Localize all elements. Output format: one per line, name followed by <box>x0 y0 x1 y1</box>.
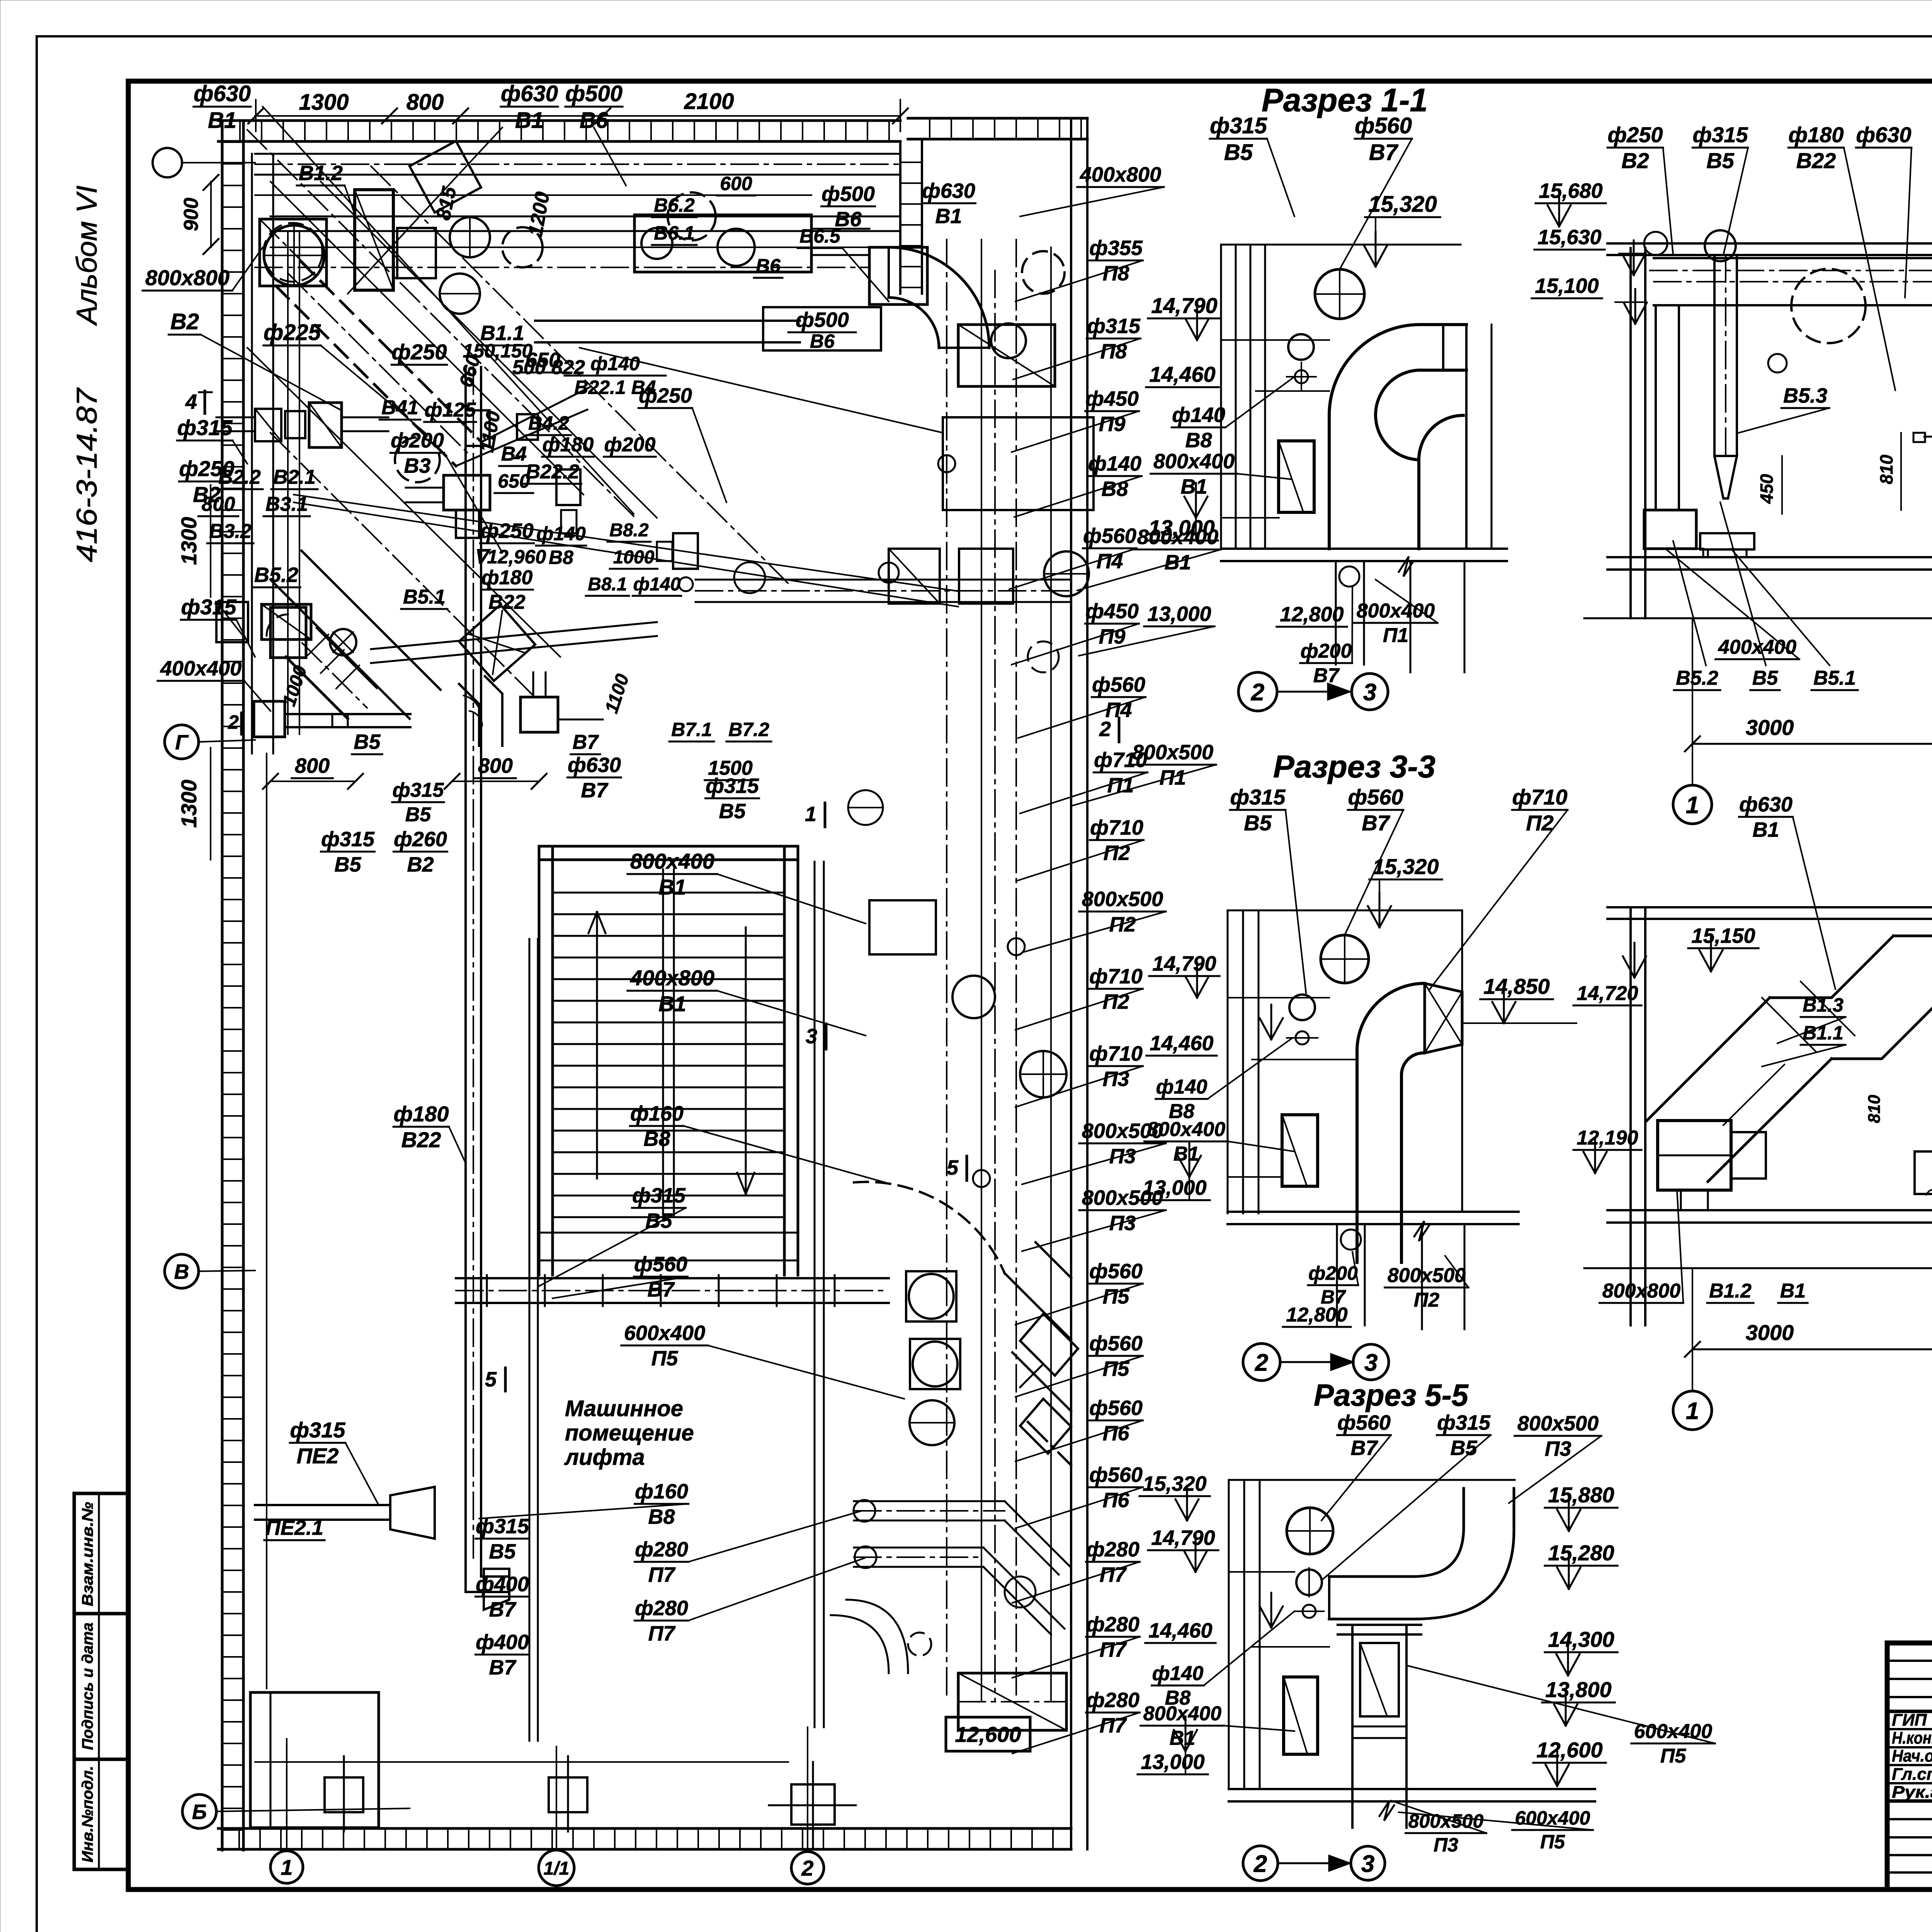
svg-text:ф315: ф315 <box>393 779 444 801</box>
B1 fan3 <box>502 227 543 267</box>
svg-text:ф160: ф160 <box>630 1102 684 1125</box>
svg-text:1: 1 <box>1686 792 1699 818</box>
svg-text:ф450: ф450 <box>1085 600 1139 623</box>
svg-text:ф560: ф560 <box>1089 1463 1143 1486</box>
svg-text:800х500: 800х500 <box>1082 888 1163 911</box>
svg-text:В8: В8 <box>1185 429 1212 452</box>
svg-text:П2: П2 <box>1414 1289 1439 1311</box>
svg-text:П3: П3 <box>1103 1067 1129 1090</box>
svg-text:1300: 1300 <box>177 780 201 828</box>
right rect eq1 <box>869 247 927 304</box>
axis circle top <box>153 148 182 177</box>
margin stamp boxes <box>74 1493 128 1869</box>
svg-text:2: 2 <box>228 711 239 733</box>
svg-text:1: 1 <box>1686 1398 1699 1424</box>
svg-text:В2: В2 <box>170 309 199 334</box>
plan open rect right <box>943 417 1094 510</box>
svg-text:Г: Г <box>175 731 189 754</box>
plan top dim line <box>255 115 900 117</box>
svg-text:ф560: ф560 <box>1337 1411 1391 1434</box>
svg-text:ф315: ф315 <box>290 1418 346 1442</box>
svg-text:ф140: ф140 <box>1156 1076 1207 1098</box>
svg-text:В3.1: В3.1 <box>265 493 308 515</box>
svg-text:ф250: ф250 <box>1608 122 1663 147</box>
svg-text:ф140: ф140 <box>536 523 586 544</box>
B2 pipes <box>216 417 255 418</box>
svg-text:1300: 1300 <box>177 517 201 565</box>
plan duct 800x400 low <box>958 1673 1066 1730</box>
svg-text:В5.2: В5.2 <box>1676 667 1718 689</box>
svg-text:В: В <box>174 1260 189 1283</box>
svg-text:ф630: ф630 <box>194 81 251 106</box>
svg-text:ф315: ф315 <box>1230 785 1286 809</box>
P-elbow big <box>889 247 989 348</box>
svg-text:400х800: 400х800 <box>630 966 714 990</box>
svg-text:Рук.гр.: Рук.гр. <box>1892 1782 1932 1801</box>
svg-text:В5.2: В5.2 <box>254 563 298 587</box>
svg-text:Подпись и дата: Подпись и дата <box>79 1622 96 1750</box>
B8 rect right <box>673 533 698 569</box>
svg-text:П4: П4 <box>1105 698 1132 721</box>
B5 rot square X <box>459 605 535 681</box>
svg-text:лифта: лифта <box>564 1445 645 1470</box>
plan diag leaders set <box>270 182 583 495</box>
svg-text:ф450: ф450 <box>1085 387 1139 410</box>
svg-text:В5: В5 <box>334 853 361 876</box>
pipe f280 b <box>854 1547 983 1549</box>
svg-text:800: 800 <box>478 754 513 777</box>
svg-text:800х500: 800х500 <box>1517 1412 1599 1435</box>
bottom pedestal <box>791 1784 835 1825</box>
svg-text:800х800: 800х800 <box>1602 1280 1681 1302</box>
svg-text:15,100: 15,100 <box>1535 274 1599 298</box>
svg-text:ф315: ф315 <box>1087 315 1141 338</box>
svg-text:15,150: 15,150 <box>1691 924 1755 947</box>
svg-text:ф250: ф250 <box>392 340 447 364</box>
plan extra circles mid <box>395 437 440 482</box>
svg-text:ф710: ф710 <box>1090 816 1143 839</box>
svg-text:ф315: ф315 <box>1437 1411 1491 1434</box>
svg-text:450: 450 <box>1757 474 1777 504</box>
svg-text:ф125: ф125 <box>425 399 476 421</box>
svg-text:В7: В7 <box>489 1656 517 1679</box>
axis Г <box>165 725 199 759</box>
B5 diag duct <box>286 657 348 719</box>
svg-text:П9: П9 <box>1099 625 1126 648</box>
svg-text:14,460: 14,460 <box>1149 362 1215 386</box>
svg-text:1: 1 <box>805 803 816 826</box>
svg-text:В7.1: В7.1 <box>671 719 712 740</box>
B4 rect <box>466 410 490 446</box>
svg-text:В5.1: В5.1 <box>1813 667 1856 689</box>
svg-text:Б: Б <box>192 1800 207 1823</box>
svg-text:В1: В1 <box>1752 818 1779 841</box>
staircase <box>538 846 541 1275</box>
svg-text:600: 600 <box>720 173 752 194</box>
plan big rect B6 unit <box>634 215 811 272</box>
svg-text:12,800: 12,800 <box>1286 1304 1347 1326</box>
svg-text:В6: В6 <box>756 255 781 277</box>
svg-text:ф560: ф560 <box>1089 1332 1143 1355</box>
svg-text:ф315: ф315 <box>706 774 759 798</box>
plan top duct run <box>255 153 900 155</box>
svg-text:П8: П8 <box>1100 340 1127 363</box>
plan S pipes low <box>831 1615 889 1673</box>
svg-text:Машинное: Машинное <box>565 1396 683 1421</box>
plan bottom wall <box>218 1827 1071 1830</box>
B5 diag hatch <box>305 634 359 689</box>
svg-text:П5: П5 <box>1540 1831 1565 1853</box>
svg-text:900: 900 <box>180 198 202 231</box>
svg-text:В7: В7 <box>489 1598 517 1621</box>
svg-text:15,880: 15,880 <box>1548 1483 1614 1507</box>
svg-text:ф315: ф315 <box>321 828 375 851</box>
svg-text:В8: В8 <box>1101 477 1128 500</box>
B22 vertical duct <box>464 367 467 1558</box>
plan left duct run <box>251 154 253 753</box>
svg-text:800х800: 800х800 <box>145 265 230 290</box>
svg-text:4: 4 <box>185 390 197 413</box>
svg-text:ф315: ф315 <box>177 415 233 440</box>
svg-text:В3.2: В3.2 <box>209 520 252 543</box>
svg-text:ф140: ф140 <box>1172 403 1225 427</box>
svg-text:В5: В5 <box>645 1209 672 1232</box>
svg-text:650: 650 <box>498 470 530 492</box>
B5 grille 400x400 <box>262 604 311 639</box>
svg-text:В1: В1 <box>658 992 686 1016</box>
G axis pylon <box>254 701 285 737</box>
B2 row rects <box>255 409 281 441</box>
svg-text:В5: В5 <box>354 730 381 753</box>
svg-text:3000: 3000 <box>1746 715 1794 740</box>
svg-text:15,680: 15,680 <box>1539 179 1602 202</box>
svg-text:15,320: 15,320 <box>1372 854 1439 879</box>
trap P6 <box>1020 1314 1078 1376</box>
svg-text:1000: 1000 <box>613 547 655 568</box>
svg-text:15,320: 15,320 <box>1368 192 1437 217</box>
right circles mid <box>1044 551 1089 596</box>
mid long leader <box>294 495 958 591</box>
plan left inner line <box>266 753 267 1689</box>
svg-text:П4: П4 <box>1097 549 1123 573</box>
svg-text:ф200: ф200 <box>391 429 444 452</box>
svg-text:13,800: 13,800 <box>1545 1677 1611 1702</box>
svg-text:15,320: 15,320 <box>1143 1472 1206 1495</box>
svg-text:ф160: ф160 <box>635 1480 688 1503</box>
svg-text:ф140: ф140 <box>1088 452 1141 475</box>
axis Б <box>182 1794 216 1828</box>
B1 fan circle <box>264 225 324 286</box>
B1 unit rect <box>355 190 393 290</box>
B1 grille 800x800 <box>260 219 327 286</box>
svg-text:П1: П1 <box>1383 624 1408 646</box>
B1 connect duct <box>535 320 800 322</box>
svg-text:В5: В5 <box>1706 148 1734 173</box>
B1 rot square <box>410 141 481 213</box>
svg-text:П5: П5 <box>651 1347 679 1370</box>
svg-text:ф280: ф280 <box>1086 1538 1139 1561</box>
boxed label ф500 B6 <box>763 307 881 350</box>
svg-text:В8.1: В8.1 <box>588 574 627 595</box>
svg-text:ф630: ф630 <box>501 81 558 106</box>
svg-text:ф250: ф250 <box>639 384 692 407</box>
svg-text:В1.2: В1.2 <box>1709 1280 1752 1302</box>
svg-text:5: 5 <box>485 1368 497 1391</box>
svg-text:ф250: ф250 <box>179 456 235 481</box>
svg-text:Разрез 1-1: Разрез 1-1 <box>1262 82 1428 118</box>
svg-text:В2: В2 <box>193 482 221 507</box>
svg-text:В1: В1 <box>208 108 236 133</box>
svg-text:12,600: 12,600 <box>1536 1738 1602 1762</box>
B5 valve circle <box>330 629 356 655</box>
svg-text:ф280: ф280 <box>1086 1689 1139 1712</box>
svg-text:ф225: ф225 <box>264 320 321 345</box>
svg-text:800х400: 800х400 <box>630 849 714 873</box>
svg-text:14,460: 14,460 <box>1148 1619 1212 1642</box>
svg-text:2: 2 <box>1253 1850 1267 1877</box>
plan top wall <box>218 119 900 122</box>
svg-text:ф280: ф280 <box>635 1597 688 1620</box>
B4 body <box>444 475 490 510</box>
svg-text:В7.2: В7.2 <box>728 719 769 740</box>
svg-text:П9: П9 <box>1099 412 1126 435</box>
svg-text:помещение: помещение <box>565 1420 694 1446</box>
svg-text:В7: В7 <box>1369 140 1399 165</box>
svg-text:800х400: 800х400 <box>1357 600 1435 622</box>
svg-text:В8: В8 <box>648 1505 675 1528</box>
svg-text:14,790: 14,790 <box>1152 952 1216 975</box>
svg-text:В5: В5 <box>1752 667 1779 689</box>
svg-text:ф560: ф560 <box>1348 785 1403 809</box>
axis В <box>165 1254 199 1288</box>
svg-text:В5.1: В5.1 <box>403 586 446 608</box>
svg-text:В8.2: В8.2 <box>609 520 649 541</box>
fanbox stack <box>906 1271 956 1321</box>
svg-text:В5: В5 <box>405 803 432 826</box>
svg-text:ф200: ф200 <box>1308 1262 1358 1284</box>
svg-text:ф250: ф250 <box>480 519 534 543</box>
svg-text:2: 2 <box>801 1856 813 1880</box>
svg-text:ф560: ф560 <box>634 1253 687 1276</box>
svg-text:Альбом VI: Альбом VI <box>71 185 103 326</box>
svg-text:В22: В22 <box>401 1128 441 1152</box>
svg-text:3000: 3000 <box>1746 1320 1794 1345</box>
svg-text:Гл.спец: Гл.спец <box>1892 1765 1932 1784</box>
thin vertical pair <box>529 939 531 1741</box>
svg-text:ф560: ф560 <box>1092 673 1145 696</box>
plan left wall <box>221 121 224 1850</box>
svg-text:В8: В8 <box>643 1127 670 1150</box>
pipe f280 a <box>854 1500 1005 1502</box>
svg-text:Взам.инв.№: Взам.инв.№ <box>79 1502 96 1606</box>
svg-text:3: 3 <box>1364 1349 1378 1376</box>
svg-text:Разрез 3-3: Разрез 3-3 <box>1273 749 1435 784</box>
svg-text:П2: П2 <box>1103 990 1129 1013</box>
svg-text:ф280: ф280 <box>635 1538 688 1561</box>
svg-text:ф140: ф140 <box>1152 1662 1204 1685</box>
svg-text:В2.1: В2.1 <box>273 466 316 488</box>
plan horiz flanges <box>486 1275 488 1306</box>
svg-text:13,000: 13,000 <box>1147 602 1211 626</box>
svg-text:П8: П8 <box>1103 262 1129 285</box>
svg-text:В6: В6 <box>810 330 835 352</box>
svg-text:3: 3 <box>1363 679 1376 706</box>
top right circles <box>668 192 716 240</box>
elev box 12600 <box>946 1717 1030 1751</box>
svg-text:1300: 1300 <box>299 90 349 115</box>
B5 elbow down <box>459 676 502 746</box>
svg-text:ф280: ф280 <box>1086 1613 1139 1636</box>
axis 1/1 <box>539 1850 574 1886</box>
plan riser circles <box>938 455 955 472</box>
svg-text:ф560: ф560 <box>1355 113 1412 138</box>
svg-text:П3: П3 <box>1545 1437 1571 1460</box>
svg-text:В1: В1 <box>1173 1143 1199 1165</box>
svg-text:14,300: 14,300 <box>1548 1627 1614 1651</box>
svg-text:В1.3: В1.3 <box>1803 994 1844 1016</box>
plan horiz thin upper <box>270 247 900 248</box>
B22 rect <box>556 469 580 505</box>
B1 diag duct2 <box>481 386 591 442</box>
svg-text:ф560: ф560 <box>1089 1260 1143 1283</box>
svg-text:ф710: ф710 <box>1512 785 1568 809</box>
svg-text:В2: В2 <box>407 853 434 876</box>
title block grid <box>1887 1643 1932 1889</box>
svg-text:В6.5: В6.5 <box>799 225 841 247</box>
svg-text:14,790: 14,790 <box>1151 1526 1215 1549</box>
svg-text:ф630: ф630 <box>1739 793 1793 816</box>
svg-text:2: 2 <box>1251 679 1264 706</box>
svg-text:В1: В1 <box>1180 475 1207 498</box>
svg-text:ф315: ф315 <box>476 1515 529 1538</box>
plan right wall <box>1070 120 1072 1849</box>
B1 diag duct <box>276 286 456 466</box>
plan corridor wall <box>814 862 816 1727</box>
right eq y2500 <box>869 900 936 954</box>
plan horiz duct y3330 <box>456 1277 889 1279</box>
svg-text:ф560: ф560 <box>1089 1396 1143 1420</box>
plan band y1500 <box>696 579 1071 581</box>
axis 1 <box>270 1851 303 1883</box>
svg-text:14,720: 14,720 <box>1577 982 1638 1005</box>
riser lines right <box>946 240 947 1700</box>
svg-text:800х400: 800х400 <box>1143 1702 1222 1725</box>
B1 leader diag <box>247 130 634 516</box>
svg-text:В7: В7 <box>1313 664 1340 687</box>
svg-text:ПЕ2.1: ПЕ2.1 <box>265 1516 323 1539</box>
svg-text:В7: В7 <box>573 731 599 753</box>
svg-text:ф630: ф630 <box>922 179 975 202</box>
svg-text:800: 800 <box>406 90 444 115</box>
svg-text:810: 810 <box>1876 454 1896 484</box>
svg-text:ф315: ф315 <box>1693 122 1748 147</box>
svg-text:В1.1: В1.1 <box>1803 1022 1844 1044</box>
svg-text:В7: В7 <box>1362 811 1390 835</box>
diag ducts P5 P6 <box>1005 1273 1071 1340</box>
svg-text:В5.3: В5.3 <box>1783 384 1827 407</box>
svg-text:ф260: ф260 <box>394 828 447 851</box>
svg-text:В5: В5 <box>719 799 746 823</box>
svg-text:ф500: ф500 <box>796 308 849 332</box>
machine room box <box>250 1692 379 1828</box>
svg-text:В1: В1 <box>1780 1280 1806 1302</box>
svg-text:П2: П2 <box>1526 811 1553 835</box>
svg-text:В2: В2 <box>1621 148 1649 173</box>
svg-text:В41: В41 <box>381 396 418 419</box>
svg-text:14,790: 14,790 <box>1151 293 1217 318</box>
mid diag duct <box>270 580 410 719</box>
svg-text:П7: П7 <box>648 1563 676 1586</box>
svg-text:П3: П3 <box>1434 1834 1458 1856</box>
svg-text:12,800: 12,800 <box>1280 603 1344 626</box>
svg-text:В1: В1 <box>935 204 962 228</box>
svg-text:800: 800 <box>295 754 330 777</box>
svg-text:3: 3 <box>1361 1850 1374 1877</box>
svg-text:В6.1: В6.1 <box>654 222 695 244</box>
svg-text:ф630: ф630 <box>568 753 621 777</box>
svg-text:ф710: ф710 <box>1089 965 1143 988</box>
svg-text:14,460: 14,460 <box>1150 1032 1213 1055</box>
svg-text:12,600: 12,600 <box>955 1722 1021 1747</box>
svg-text:ф355: ф355 <box>1089 236 1143 260</box>
G axis pylon right <box>520 697 558 732</box>
svg-text:800х400: 800х400 <box>1153 450 1235 473</box>
svg-text:В7: В7 <box>581 779 609 802</box>
svg-text:ф315: ф315 <box>181 595 237 619</box>
svg-text:15,280: 15,280 <box>1548 1541 1614 1565</box>
right rect eq2 <box>889 549 940 604</box>
svg-text:ф400: ф400 <box>476 1573 529 1596</box>
svg-text:13,000: 13,000 <box>1143 1176 1206 1199</box>
svg-text:ф400: ф400 <box>476 1631 529 1654</box>
svg-text:ф200: ф200 <box>604 434 656 456</box>
svg-text:12,190: 12,190 <box>1577 1127 1638 1149</box>
svg-text:В8: В8 <box>549 547 573 568</box>
svg-text:1: 1 <box>281 1855 293 1879</box>
mid horiz pipe <box>371 622 657 649</box>
svg-text:ф560: ф560 <box>1083 524 1136 548</box>
svg-text:13,000: 13,000 <box>1148 515 1214 540</box>
svg-text:П5: П5 <box>1660 1745 1686 1767</box>
svg-text:ф710: ф710 <box>1089 1042 1143 1065</box>
svg-text:ф500: ф500 <box>565 81 622 106</box>
svg-text:2100: 2100 <box>684 89 734 114</box>
svg-text:ф140: ф140 <box>633 574 681 595</box>
svg-text:ф315: ф315 <box>1210 113 1267 138</box>
row2 rects <box>216 602 248 642</box>
svg-text:800х400: 800х400 <box>1147 1118 1226 1141</box>
svg-text:ПЕ2: ПЕ2 <box>297 1444 339 1468</box>
svg-text:ф180: ф180 <box>1789 122 1844 147</box>
svg-text:ф200: ф200 <box>1301 640 1352 662</box>
PE2 duct <box>255 1504 390 1506</box>
svg-text:Разрез 5-5: Разрез 5-5 <box>1314 1378 1469 1412</box>
svg-text:П2: П2 <box>1104 841 1130 864</box>
svg-text:1/1: 1/1 <box>544 1858 570 1879</box>
svg-text:800х500: 800х500 <box>1132 741 1213 764</box>
svg-text:ГИП: ГИП <box>1892 1711 1927 1730</box>
svg-text:В5: В5 <box>489 1540 516 1563</box>
svg-text:ф500: ф500 <box>821 182 875 206</box>
svg-text:13,000: 13,000 <box>1141 1750 1204 1774</box>
svg-text:В22: В22 <box>1796 148 1836 173</box>
svg-text:2: 2 <box>1255 1349 1268 1376</box>
svg-text:ф180: ф180 <box>394 1102 449 1126</box>
svg-text:600х400: 600х400 <box>624 1321 705 1345</box>
svg-text:В5: В5 <box>1244 811 1272 835</box>
svg-text:В5: В5 <box>1450 1436 1477 1459</box>
svg-text:15,630: 15,630 <box>1537 226 1601 249</box>
